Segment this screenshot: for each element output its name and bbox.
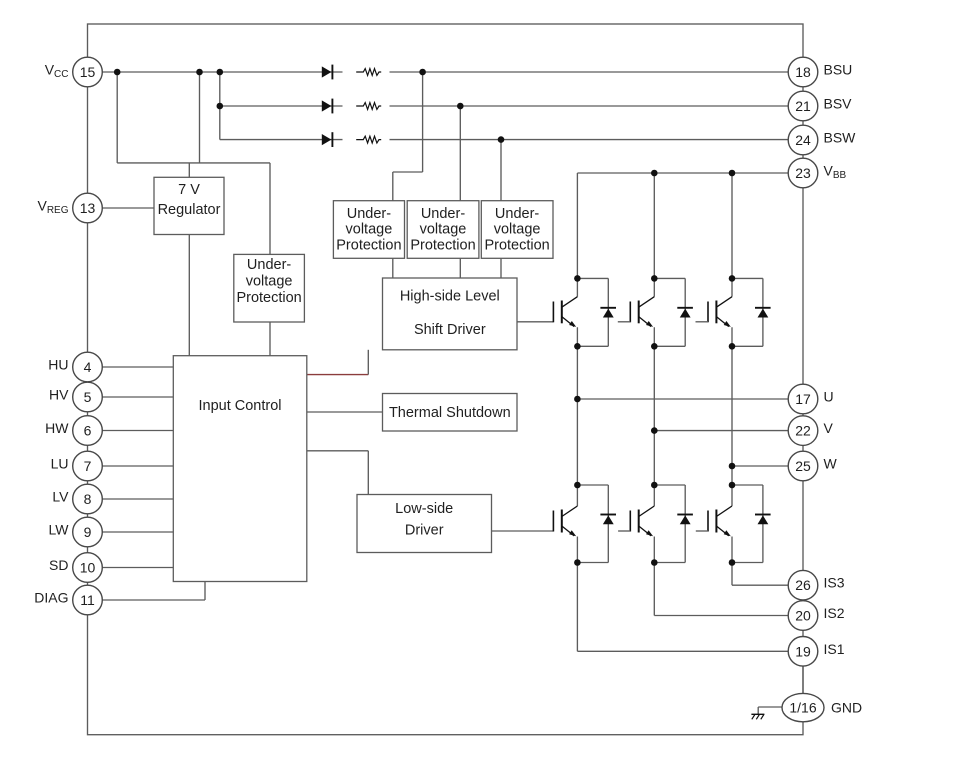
svg-text:Protection: Protection: [336, 237, 401, 253]
svg-text:U: U: [824, 389, 834, 405]
svg-text:HW: HW: [45, 420, 69, 436]
svg-text:IS3: IS3: [824, 575, 845, 591]
svg-text:IS1: IS1: [824, 641, 845, 657]
svg-text:IS2: IS2: [824, 605, 845, 621]
svg-text:LV: LV: [52, 489, 69, 505]
svg-text:7 V: 7 V: [178, 182, 200, 198]
svg-text:BSW: BSW: [824, 130, 857, 146]
svg-text:VBB: VBB: [824, 163, 847, 182]
svg-text:LU: LU: [51, 456, 69, 472]
svg-text:9: 9: [84, 524, 92, 540]
svg-text:Thermal Shutdown: Thermal Shutdown: [389, 405, 511, 421]
svg-text:Under-: Under-: [347, 206, 391, 222]
svg-text:Low-side: Low-side: [395, 501, 453, 517]
svg-text:BSV: BSV: [824, 96, 853, 112]
svg-text:4: 4: [84, 359, 92, 375]
svg-text:voltage: voltage: [420, 222, 467, 238]
svg-text:BSU: BSU: [824, 62, 853, 78]
svg-text:Protection: Protection: [484, 237, 549, 253]
svg-text:voltage: voltage: [494, 222, 541, 238]
svg-text:11: 11: [80, 592, 95, 608]
svg-text:Regulator: Regulator: [158, 202, 221, 218]
svg-text:8: 8: [84, 491, 92, 507]
svg-text:6: 6: [84, 423, 92, 439]
svg-text:LW: LW: [49, 522, 70, 538]
svg-text:Protection: Protection: [410, 237, 475, 253]
svg-text:Under-: Under-: [247, 257, 291, 273]
svg-text:voltage: voltage: [346, 222, 393, 238]
svg-text:Under-: Under-: [421, 206, 465, 222]
svg-text:V: V: [824, 420, 834, 436]
svg-text:HV: HV: [49, 387, 69, 403]
svg-text:Input Control: Input Control: [198, 398, 281, 414]
svg-text:19: 19: [795, 643, 811, 659]
svg-text:Protection: Protection: [236, 290, 301, 306]
svg-text:17: 17: [795, 391, 811, 407]
svg-text:13: 13: [80, 200, 96, 216]
svg-text:GND: GND: [831, 699, 862, 715]
svg-text:SD: SD: [49, 557, 68, 573]
svg-text:Driver: Driver: [405, 523, 444, 539]
svg-text:W: W: [824, 456, 838, 472]
svg-text:voltage: voltage: [246, 274, 293, 290]
svg-text:20: 20: [795, 608, 811, 624]
svg-text:23: 23: [795, 165, 811, 181]
svg-text:22: 22: [795, 423, 811, 439]
svg-text:HU: HU: [48, 357, 68, 373]
svg-text:21: 21: [795, 98, 811, 114]
svg-text:1/16: 1/16: [789, 699, 816, 715]
svg-text:7: 7: [84, 458, 92, 474]
svg-text:VCC: VCC: [45, 62, 69, 81]
svg-text:18: 18: [795, 64, 811, 80]
svg-text:VREG: VREG: [37, 198, 68, 217]
svg-text:High-side Level: High-side Level: [400, 289, 500, 305]
svg-text:DIAG: DIAG: [34, 590, 68, 606]
svg-text:24: 24: [795, 132, 811, 148]
svg-text:10: 10: [80, 560, 96, 576]
svg-text:26: 26: [795, 577, 811, 593]
svg-text:Under-: Under-: [495, 206, 539, 222]
svg-text:5: 5: [84, 389, 92, 405]
svg-text:25: 25: [795, 458, 811, 474]
svg-text:Shift Driver: Shift Driver: [414, 322, 486, 338]
svg-text:15: 15: [80, 64, 96, 80]
